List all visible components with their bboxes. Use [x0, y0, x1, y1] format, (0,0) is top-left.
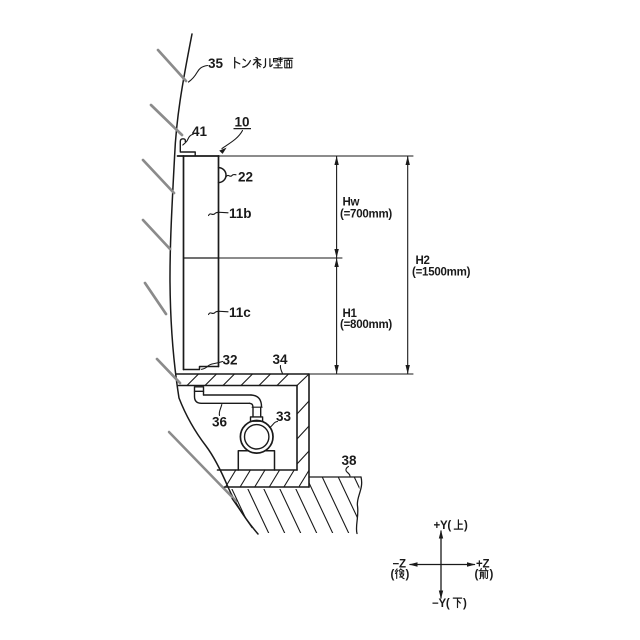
svg-text:41: 41 [192, 124, 208, 139]
svg-text:22: 22 [238, 170, 253, 185]
svg-text:34: 34 [273, 352, 289, 367]
svg-text:Hw: Hw [343, 197, 360, 209]
svg-text:(: ( [391, 569, 395, 581]
pump 33 outer circle [240, 421, 273, 454]
arrow H2 bottom [406, 365, 410, 374]
dimension line H2 [407, 156, 409, 374]
top bar hatching [187, 374, 289, 386]
arrowhead 10 [219, 148, 226, 154]
arrow H1 top [334, 258, 338, 267]
leader squiggle 11b [209, 212, 229, 215]
arrow H1 bottom [334, 365, 338, 374]
axes arrow up [439, 530, 443, 539]
svg-text:35: 35 [208, 56, 224, 71]
pipe 36 left elbow outer [195, 391, 250, 403]
base box 34 bottom bar bottom edge [225, 486, 310, 488]
svg-text:10: 10 [235, 115, 250, 130]
bracket 41 [180, 139, 195, 156]
leader 32 [202, 362, 223, 370]
svg-text:(=1500mm): (=1500mm) [412, 267, 471, 279]
extension line bottom [309, 373, 413, 375]
svg-text:): ) [490, 569, 494, 581]
wall hatch line 2 [151, 105, 182, 135]
pipe 36 horizontal top edge [204, 394, 252, 396]
extension line top [219, 155, 413, 157]
wall hatch line 7 thin tail [232, 499, 252, 528]
label 35 katakana トンネル壁面 [235, 58, 293, 69]
leader 34 [280, 366, 282, 374]
axis kanji rear [395, 569, 404, 579]
axes arrow left [409, 562, 418, 566]
pump 33 inner circle [245, 425, 269, 449]
pump base [238, 451, 274, 470]
label 10 underline [234, 128, 252, 130]
pipe 36 left elbow inner [203, 391, 205, 395]
axis kanji front [479, 569, 488, 579]
arrow Hw bottom [334, 249, 338, 258]
pipe flange [251, 417, 263, 421]
svg-text:(=700mm): (=700mm) [340, 209, 392, 221]
panel divider line [184, 257, 219, 259]
pipe vertical segment [253, 407, 261, 417]
svg-text:36: 36 [212, 415, 228, 430]
base box 34 right wall outer edge [308, 374, 310, 487]
svg-text:38: 38 [342, 453, 358, 468]
panel 10 left edge [183, 156, 185, 370]
wall hatch line 4 [143, 220, 170, 249]
base box corner diagonal top [297, 374, 309, 386]
axes arrow down [439, 591, 443, 600]
ground 38 top edge [309, 476, 361, 478]
ground 38 right wavy edge [356, 477, 361, 534]
svg-text:+Y(: +Y( [434, 520, 452, 532]
pipe joint line [252, 406, 262, 408]
leader 35 [189, 66, 208, 83]
svg-text:11b: 11b [229, 206, 252, 221]
sensor 22 [219, 168, 227, 183]
leader 33 [270, 422, 278, 428]
axes vertical line [440, 531, 442, 598]
pipe 36 cap [195, 387, 204, 392]
axes arrow right [467, 562, 476, 566]
axis kanji down [453, 598, 461, 607]
svg-text:(: ( [475, 569, 479, 581]
svg-text:H2: H2 [416, 255, 430, 267]
dimension line Hw/H1 [336, 156, 338, 374]
arrow Hw top [334, 156, 338, 165]
panel 10 top edge [178, 155, 220, 157]
leader 41 [183, 134, 194, 145]
svg-text:): ) [406, 569, 410, 581]
base box 34 bottom bar top edge [218, 469, 298, 471]
bottom bar hatching [226, 470, 295, 487]
base box corner diagonal bottom [299, 471, 308, 486]
svg-text:−Z: −Z [393, 559, 406, 571]
arrow H2 top [406, 156, 410, 165]
base box 34 right wall inner edge [296, 386, 298, 471]
right wall hatching [297, 401, 309, 464]
wall hatch line 1 [158, 50, 186, 81]
ground 38 hatching [222, 468, 399, 538]
wall hatch line 6 [157, 359, 180, 383]
base box 34 top bar top edge [177, 373, 310, 375]
svg-text:(=800mm): (=800mm) [340, 319, 392, 331]
svg-text:−Y(: −Y( [432, 598, 450, 610]
panel 10 right edge [218, 156, 220, 367]
wall hatch line 7 long [169, 432, 236, 501]
svg-text:33: 33 [276, 409, 292, 424]
leader 10 [222, 131, 243, 149]
tunnel wall curve 35 [170, 34, 258, 534]
pipe 36 right elbow inner [250, 403, 253, 407]
leader 38 [346, 467, 350, 478]
base box 34 top bar bottom edge [179, 385, 298, 387]
svg-text:32: 32 [223, 353, 238, 368]
axis kanji up [454, 520, 462, 529]
wall hatch line 3 [143, 160, 174, 193]
leader 36 [219, 405, 222, 416]
axes horizontal line [410, 564, 475, 566]
leader squiggle 22 [227, 174, 237, 176]
panel bottom edge [184, 367, 219, 370]
wall hatch line 5 [145, 283, 166, 314]
extension line middle [219, 257, 343, 259]
svg-text:): ) [464, 520, 468, 532]
svg-text:): ) [463, 598, 467, 610]
pipe 36 right elbow outer [251, 395, 262, 407]
leader squiggle 11c [209, 311, 229, 314]
svg-text:11c: 11c [229, 305, 251, 320]
